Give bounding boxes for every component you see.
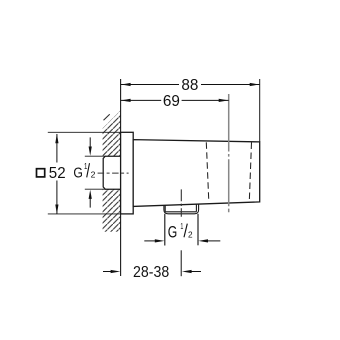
outlet thread: [164, 214, 166, 246]
wall hatching lower band: [103, 189, 121, 232]
hidden edge left dashed: [206, 142, 209, 201]
dim 52 extension bottom: [48, 213, 121, 215]
G1/2 bottom dim left: [144, 240, 156, 242]
svg-text:2: 2: [188, 229, 193, 239]
connector top extension: [85, 155, 106, 157]
svg-text:69: 69: [163, 93, 180, 110]
dim 52 extension top: [48, 131, 121, 133]
svg-text:G: G: [73, 164, 83, 181]
body outline: [133, 140, 260, 207]
connector centerline dashed: [98, 172, 129, 174]
dim 88 arrow right: [250, 83, 260, 86]
dim 28-38 right: [191, 271, 201, 273]
dim 88 extension right: [259, 79, 261, 142]
G1/2 bottom dim right: [206, 240, 220, 242]
dim 52 arrow bottom: [55, 205, 58, 215]
square symbol: [37, 169, 45, 177]
svg-text:1: 1: [84, 161, 88, 171]
hidden edge right dashed: [249, 143, 251, 202]
dim 52 arrow top: [55, 134, 58, 144]
svg-text:52: 52: [49, 165, 66, 182]
wall face line: [120, 79, 122, 276]
dim 28-38 left: [103, 271, 111, 273]
svg-text:88: 88: [181, 77, 198, 94]
connector bottom extension: [85, 188, 106, 190]
holder centerline grey: [228, 94, 230, 212]
svg-text:2: 2: [91, 169, 96, 179]
dim 28-38 extension mid: [180, 250, 182, 276]
dim 69 arrow right: [219, 99, 229, 102]
G1/2 left arrow top: [89, 137, 91, 148]
dim 69 line: [121, 99, 162, 101]
dim 52 line lower: [56, 181, 58, 214]
svg-text:1: 1: [180, 222, 183, 231]
svg-text:G: G: [168, 222, 178, 241]
outlet centerline: [180, 189, 182, 216]
dim 88 line: [121, 84, 179, 86]
wall hatching upper band: [103, 110, 121, 156]
dim 88 arrow left: [121, 83, 131, 86]
G1/2 left arrow bottom: [89, 198, 91, 208]
svg-text:28-38: 28-38: [133, 264, 169, 281]
outlet nut: [165, 204, 196, 212]
flange: [121, 132, 134, 214]
dim 69 arrow left: [121, 99, 131, 102]
connector G1/2 inlet: [103, 156, 120, 189]
dim 52 line upper: [56, 134, 58, 163]
